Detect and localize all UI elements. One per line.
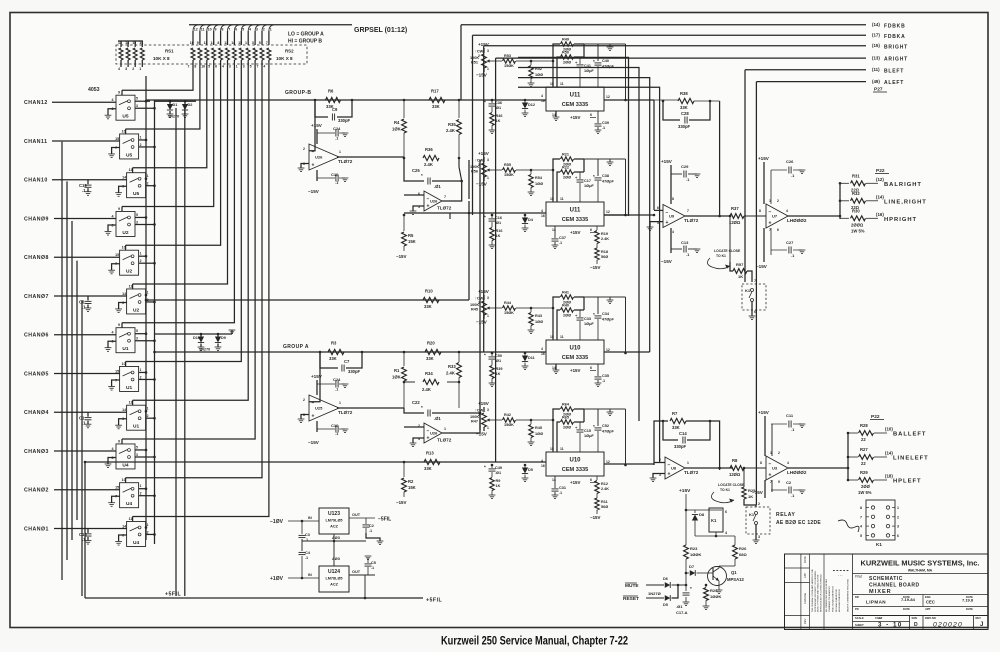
svg-text:J: J <box>980 622 983 628</box>
svg-text:ENG: ENG <box>925 595 931 599</box>
op-amp U7 LH0002 (left) <box>766 456 788 480</box>
svg-text:1: 1 <box>139 67 141 71</box>
svg-text:8: 8 <box>217 41 219 45</box>
svg-text:CHANØ8: CHANØ8 <box>24 255 49 261</box>
wire GRPSEL bus line 6 <box>228 25 233 31</box>
svg-text:6: 6 <box>590 113 592 117</box>
wire trimmer junction to chip <box>531 60 553 62</box>
ground at CHAN08 switch <box>112 264 120 271</box>
svg-text:C29: C29 <box>681 164 689 169</box>
wire -10V to U123 <box>288 520 319 522</box>
wire CHAN09 to group buses <box>135 216 146 218</box>
svg-text:6: 6 <box>235 28 237 32</box>
svg-text:3: 3 <box>243 65 245 69</box>
resistor R25 1K <box>743 467 746 470</box>
svg-text:R5: R5 <box>408 233 414 238</box>
svg-text:LM79LØ5: LM79LØ5 <box>325 519 342 523</box>
svg-text:(17): (17) <box>872 33 880 38</box>
svg-text:15: 15 <box>115 486 119 490</box>
svg-text:R31: R31 <box>852 173 860 178</box>
svg-text:+: + <box>668 472 671 478</box>
wire U26 output feedback <box>442 181 462 201</box>
svg-text:LOCATE CLOSE: LOCATE CLOSE <box>714 249 741 253</box>
svg-text:5: 5 <box>136 97 138 101</box>
capacitor C24 0.1 <box>317 383 335 385</box>
svg-text:U5: U5 <box>126 152 132 158</box>
svg-text:8: 8 <box>759 209 761 213</box>
svg-text:9: 9 <box>118 439 120 443</box>
analog switch U2 channel 8 <box>120 250 139 275</box>
svg-text:R34: R34 <box>425 371 433 376</box>
wire CHAN03 input <box>54 450 116 452</box>
svg-text:LM78LØ5: LM78LØ5 <box>325 577 342 581</box>
wire net FDBKB <box>461 24 866 26</box>
svg-text:2: 2 <box>478 54 480 58</box>
svg-text:DR: DR <box>855 595 859 599</box>
capacitor C50 0.01 <box>491 353 493 356</box>
svg-text:(13): (13) <box>872 55 880 60</box>
capacitor C12 0.1 <box>764 480 766 498</box>
rail -5FIL vertical <box>175 108 177 596</box>
svg-text:K1: K1 <box>749 512 755 517</box>
svg-text:R30: R30 <box>852 208 860 213</box>
svg-text:.1: .1 <box>559 491 562 495</box>
title block divider under title <box>853 594 989 596</box>
svg-text:2: 2 <box>140 143 142 147</box>
svg-text:2ØØ: 2ØØ <box>563 61 571 65</box>
svg-text:U26: U26 <box>315 155 323 160</box>
resistor R55 15ØK <box>491 169 502 171</box>
resistor R23 100K <box>684 545 689 559</box>
wire GRPSEL bus line 1 <box>193 25 198 31</box>
svg-text:−15V: −15V <box>756 264 768 269</box>
wire feedback loop to output node U11 <box>610 43 626 45</box>
svg-text:4: 4 <box>541 459 543 463</box>
svg-text:(11): (11) <box>872 67 880 72</box>
wire mute node <box>672 584 687 586</box>
svg-text:33K: 33K <box>329 356 337 361</box>
wire CHAN08 to group buses <box>139 255 146 257</box>
resistor R43 100 <box>524 307 531 309</box>
wire long vertical x=469 upper <box>468 160 470 199</box>
svg-text:TLØ72: TLØ72 <box>338 410 353 415</box>
svg-text:4053: 4053 <box>88 87 100 93</box>
svg-text:1K: 1K <box>496 372 501 376</box>
svg-text:−15V: −15V <box>590 265 600 270</box>
capacitor C14 330pF <box>663 421 678 440</box>
svg-text:1K: 1K <box>738 274 743 279</box>
svg-text:22: 22 <box>861 461 866 466</box>
svg-text:D11: D11 <box>528 356 535 360</box>
wire trimmer junction to chip <box>531 307 553 309</box>
svg-text:C2: C2 <box>786 480 792 485</box>
svg-text:2.4K: 2.4K <box>446 128 455 133</box>
svg-text:+1ØV: +1ØV <box>270 576 284 582</box>
wire regulator common rail <box>302 540 366 542</box>
svg-text:OUT: OUT <box>352 513 361 517</box>
capacitor C26 0.1 <box>771 169 787 171</box>
wire CHAN09 input <box>54 217 116 219</box>
svg-text:5: 5 <box>860 534 862 538</box>
wire GRPSEL bus line 4 <box>214 25 219 31</box>
svg-text:2: 2 <box>777 199 779 203</box>
svg-text:R33: R33 <box>448 364 456 369</box>
svg-text:15ØK: 15ØK <box>504 173 514 177</box>
svg-text:R10: R10 <box>425 289 433 294</box>
svg-text:2ØØ: 2ØØ <box>563 176 571 180</box>
svg-text:R22: R22 <box>562 166 569 170</box>
capacitor C19 0.1 <box>87 180 89 185</box>
wire CHAN11 to group buses <box>139 139 146 141</box>
svg-text:2: 2 <box>778 451 780 455</box>
svg-text:7-19-84: 7-19-84 <box>901 597 916 602</box>
svg-text:PROPRIETARY PROPERTY OF KURZWE: PROPRIETARY PROPERTY OF KURZWEIL <box>814 570 817 612</box>
svg-text:REV: REV <box>976 616 982 620</box>
wire GRPSEL bus line 12 <box>269 25 274 31</box>
svg-text:+15V: +15V <box>311 123 323 128</box>
svg-text:3: 3 <box>897 525 899 529</box>
svg-text:5: 5 <box>208 65 210 69</box>
svg-text:C39: C39 <box>602 121 609 125</box>
ground above U11 <box>598 43 610 45</box>
svg-text:R55: R55 <box>504 163 511 167</box>
svg-text:APP: APP <box>803 573 807 578</box>
wire CHAN12 input <box>52 101 116 103</box>
bus A vertical (group A sum) <box>154 100 156 544</box>
resistor R65 200 <box>557 422 560 452</box>
svg-text:3: 3 <box>252 41 254 45</box>
svg-text:C24: C24 <box>333 126 341 131</box>
svg-text:5: 5 <box>259 41 261 45</box>
svg-text:14: 14 <box>122 292 126 296</box>
resistor RS2 element 1 <box>191 48 195 60</box>
svg-text:3: 3 <box>256 28 258 32</box>
diode D7 <box>686 572 689 574</box>
resistor R30 2ØØΩ <box>840 217 849 219</box>
capacitor C31 0.1 <box>554 476 556 488</box>
svg-text:56Ø: 56Ø <box>601 255 608 259</box>
svg-text:· · ·: · · · <box>838 573 843 577</box>
svg-text:22: 22 <box>861 437 866 442</box>
svg-text:U9: U9 <box>669 214 675 219</box>
svg-text:C35: C35 <box>602 374 609 378</box>
svg-text:LO = GROUP A: LO = GROUP A <box>288 32 324 38</box>
capacitor C9 330pF <box>315 100 328 117</box>
wire CHAN01 input <box>54 527 127 529</box>
wire U11 lower output into U9 <box>604 214 654 216</box>
svg-text:D10: D10 <box>193 336 200 340</box>
wire trimmer junction to chip <box>531 419 553 421</box>
svg-text:R64: R64 <box>562 403 570 407</box>
svg-text:CEM 3335: CEM 3335 <box>562 217 588 223</box>
svg-text:1ØK: 1ØK <box>392 375 401 380</box>
svg-text:LOCATE CLOSE: LOCATE CLOSE <box>718 483 745 487</box>
svg-text:330pF: 330pF <box>348 369 361 374</box>
svg-text:TO K1: TO K1 <box>716 254 726 258</box>
svg-text:.Ø1: .Ø1 <box>495 471 501 475</box>
svg-text:Q1: Q1 <box>731 570 737 575</box>
svg-text:C11: C11 <box>786 413 794 418</box>
resistor R36 2.4K <box>403 157 406 160</box>
resistor RS2 element 10 <box>253 48 257 60</box>
svg-text:1ØØ: 1ØØ <box>535 320 543 324</box>
svg-text:7: 7 <box>266 41 268 45</box>
resistor R57 1K <box>729 215 732 218</box>
resistor R19 2.4K <box>596 226 598 230</box>
svg-text:K1: K1 <box>876 542 882 547</box>
capacitor C33 10uF <box>583 297 585 310</box>
svg-text:2: 2 <box>758 502 760 506</box>
svg-text:6: 6 <box>590 366 592 370</box>
wire net FDBKA <box>473 34 867 36</box>
wire select pin CHAN11 <box>125 129 127 134</box>
svg-text:U5: U5 <box>133 191 139 197</box>
svg-text:C10: C10 <box>331 423 339 428</box>
connector K1 <box>866 500 895 540</box>
svg-text:D7: D7 <box>689 564 695 569</box>
wire relay coil bottom <box>695 535 735 537</box>
svg-text:C5: C5 <box>371 561 376 565</box>
svg-text:MPSA13: MPSA13 <box>727 577 744 582</box>
svg-text:+15V: +15V <box>311 374 323 379</box>
svg-text:1W 5%: 1W 5% <box>851 228 865 233</box>
svg-text:1: 1 <box>147 290 149 294</box>
title block divider under company <box>853 573 989 575</box>
svg-text:68Ω: 68Ω <box>739 552 747 557</box>
svg-text:R43: R43 <box>535 314 542 318</box>
svg-text:1: 1 <box>487 176 489 180</box>
resistor R17 33K <box>429 97 445 102</box>
svg-text:16: 16 <box>541 352 545 356</box>
svg-text:+15V: +15V <box>758 410 770 415</box>
svg-text:CHANØ5: CHANØ5 <box>24 371 49 377</box>
svg-text:10K X 8: 10K X 8 <box>276 56 293 61</box>
resistor RS2 element 12 <box>267 48 271 60</box>
wire CHAN05 to group buses <box>139 371 146 373</box>
ground at CHAN02 switch <box>112 496 120 503</box>
svg-text:U1: U1 <box>122 346 128 352</box>
svg-text:7: 7 <box>860 515 862 519</box>
wire group B row <box>146 99 546 101</box>
capacitor C41 10uF <box>583 44 585 57</box>
svg-text:R4: R4 <box>394 120 400 125</box>
svg-text:C40: C40 <box>602 59 609 63</box>
capacitor C24 0.1 <box>317 132 335 134</box>
capacitor C1 0.1 <box>87 412 89 417</box>
wire lower U26 output feedback <box>442 413 480 433</box>
svg-text:11: 11 <box>129 517 133 521</box>
svg-text:+: + <box>769 221 772 227</box>
svg-text:1K: 1K <box>748 494 753 499</box>
svg-text:U2: U2 <box>126 269 132 275</box>
svg-text:C24: C24 <box>333 377 341 382</box>
relay contact K1 (right) <box>742 284 766 310</box>
resistor R40 200 <box>557 310 560 340</box>
svg-text:1: 1 <box>140 135 142 139</box>
svg-text:R20: R20 <box>427 341 435 346</box>
wire CHAN05 input <box>54 372 120 374</box>
svg-text:ACZ: ACZ <box>330 525 338 529</box>
svg-text:16: 16 <box>201 65 205 69</box>
svg-text:↑CW: ↑CW <box>475 50 484 54</box>
title block strip text <box>803 556 807 624</box>
svg-text:4: 4 <box>112 98 114 102</box>
svg-text:1K: 1K <box>496 484 501 488</box>
svg-text:−15V: −15V <box>308 440 320 445</box>
resistor RS2 element 7 <box>232 48 236 60</box>
resistor R37 120 <box>730 214 744 219</box>
svg-text:C31: C31 <box>559 486 566 490</box>
svg-text:9: 9 <box>197 41 199 45</box>
ground below R52 <box>528 82 535 84</box>
resistor R49 200 <box>553 44 560 87</box>
svg-text:+15V: +15V <box>570 368 580 373</box>
svg-text:R38: R38 <box>680 91 688 96</box>
svg-text:1N27Ø: 1N27Ø <box>648 591 661 596</box>
svg-text:1ØK: 1ØK <box>392 127 401 132</box>
regulator U123 LM79L05 <box>319 508 349 534</box>
svg-text:2: 2 <box>303 147 305 151</box>
svg-text:R2: R2 <box>408 479 414 484</box>
svg-text:7.19.8: 7.19.8 <box>962 598 974 603</box>
svg-text:4: 4 <box>249 28 251 32</box>
regulator U124 LM78L05 <box>319 566 349 592</box>
svg-text:FRACTIONAL DIMENSION: FRACTIONAL DIMENSION <box>832 586 835 612</box>
svg-text:BALRIGHT: BALRIGHT <box>884 182 922 188</box>
svg-text:CHAN12: CHAN12 <box>24 100 48 106</box>
wire GRPSEL staircase to CHAN09 <box>122 68 214 206</box>
analog switch U1 channel 6 <box>116 328 135 353</box>
svg-text:2: 2 <box>132 67 134 71</box>
wire GRPSEL staircase to CHAN01 <box>133 68 269 516</box>
VCA chip U11 CEM3335 <box>546 87 604 111</box>
svg-text:BLEFT: BLEFT <box>884 68 904 74</box>
svg-text:DATE: DATE <box>803 556 807 563</box>
ground below R54 <box>528 191 535 193</box>
wire RS1 top rail <box>118 40 143 42</box>
svg-text:GRPSEL (01:12): GRPSEL (01:12) <box>354 27 407 34</box>
svg-text:SIZE: SIZE <box>912 616 918 620</box>
title block divider low <box>853 615 989 617</box>
ground below R43 <box>528 329 535 331</box>
svg-text:R6: R6 <box>328 89 334 94</box>
svg-text:UNLESS OTHERWISE SPECIFIED: UNLESS OTHERWISE SPECIFIED <box>848 579 850 612</box>
svg-text:LINE,RIGHT: LINE,RIGHT <box>884 199 927 205</box>
svg-text:.1: .1 <box>602 126 605 130</box>
op-amp U9 TL072 <box>663 205 685 228</box>
wire GRPSEL staircase to CHAN04 <box>133 68 249 400</box>
svg-text:+5FIL: +5FIL <box>426 598 443 604</box>
wire CHAN10 to group buses <box>145 178 147 180</box>
svg-text:1ØμF: 1ØμF <box>584 69 594 73</box>
svg-text:1W 5%: 1W 5% <box>858 490 872 495</box>
wire GRPSEL staircase to CHAN05 <box>126 68 242 361</box>
svg-text:3: 3 <box>229 65 231 69</box>
svg-text:12: 12 <box>194 28 198 32</box>
wire left rail down <box>84 462 86 598</box>
svg-text:R32: R32 <box>852 191 860 196</box>
svg-text:10: 10 <box>122 129 126 133</box>
svg-text:R26: R26 <box>739 546 747 551</box>
svg-text:9: 9 <box>118 207 120 211</box>
svg-text:(14): (14) <box>872 22 880 27</box>
svg-text:8: 8 <box>760 461 762 465</box>
svg-text:CHANNEL BOARD: CHANNEL BOARD <box>869 583 920 589</box>
svg-text:.1: .1 <box>559 241 562 245</box>
svg-text:+5FIL: +5FIL <box>165 592 182 598</box>
svg-text:.1: .1 <box>305 556 308 560</box>
resistor R34 2.4K <box>403 381 406 384</box>
svg-text:15ØK: 15ØK <box>504 311 514 315</box>
resistor R9 1K <box>491 472 493 477</box>
svg-text:AØ3: AØ3 <box>332 536 340 540</box>
wire net BRIGHT <box>484 45 866 47</box>
svg-text:U11: U11 <box>570 93 581 99</box>
svg-text:1: 1 <box>245 41 247 45</box>
wire CHAN03 to group buses <box>135 449 146 451</box>
svg-text:GROUP-B: GROUP-B <box>285 90 311 96</box>
analog switch U5 channel 11 <box>120 134 139 159</box>
wire mid nested lines <box>518 57 629 216</box>
wire D9/D10 row <box>155 333 233 335</box>
svg-text:6: 6 <box>725 510 727 514</box>
transistor Q1 MPSA13 <box>708 567 727 586</box>
svg-text:R44: R44 <box>504 301 512 305</box>
svg-text:TLØ72: TLØ72 <box>437 206 452 211</box>
resistor R53 15ØK <box>491 60 502 62</box>
resistor R10 33K <box>423 297 439 302</box>
svg-text:2ØØ: 2ØØ <box>861 484 871 489</box>
svg-text:2ØØ: 2ØØ <box>563 426 571 430</box>
svg-text:CEM 3335: CEM 3335 <box>562 355 588 361</box>
svg-text:U10: U10 <box>569 458 581 464</box>
ground below K1 contact (left) <box>755 525 757 541</box>
wire GRPSEL staircase to CHAN03 <box>122 68 255 439</box>
svg-text:C10: C10 <box>331 172 339 177</box>
resistor R1 10K <box>403 351 406 354</box>
svg-text:2: 2 <box>147 182 149 186</box>
capacitor C34 470pF <box>584 296 598 298</box>
svg-text:14: 14 <box>552 113 556 117</box>
svg-text:KURZWEIL MUSIC SYSTEMS, Inc.: KURZWEIL MUSIC SYSTEMS, Inc. <box>861 559 980 568</box>
svg-text:1K: 1K <box>496 234 501 238</box>
svg-text:−15V: −15V <box>476 432 488 437</box>
svg-text:+15V: +15V <box>661 159 673 164</box>
resistor R38 33K <box>678 98 694 103</box>
wire feedback loop to output node U10 <box>610 296 626 298</box>
ground at U26 + input <box>301 164 309 169</box>
svg-text:+: + <box>666 220 669 226</box>
svg-text:D1: D1 <box>173 103 178 107</box>
svg-text:1: 1 <box>140 484 142 488</box>
wire U124 out down to +5FIL rail <box>364 575 366 598</box>
svg-text:CEC: CEC <box>926 600 935 605</box>
diode D1 1N270 <box>169 101 171 104</box>
svg-text:R9: R9 <box>496 479 501 483</box>
diode D4 <box>524 215 526 218</box>
svg-text:R35: R35 <box>448 122 456 127</box>
svg-text:11: 11 <box>560 197 564 201</box>
wire feedback loop to output node U11 <box>610 158 626 160</box>
svg-text:C25: C25 <box>412 168 420 173</box>
svg-text:C38: C38 <box>602 174 609 178</box>
wire group A row <box>155 351 547 353</box>
svg-text:7: 7 <box>444 195 446 199</box>
svg-text:2: 2 <box>140 375 142 379</box>
svg-text:1: 1 <box>140 368 142 372</box>
svg-text:D5: D5 <box>528 468 533 472</box>
analog switch U4 channel 2 <box>120 483 139 508</box>
